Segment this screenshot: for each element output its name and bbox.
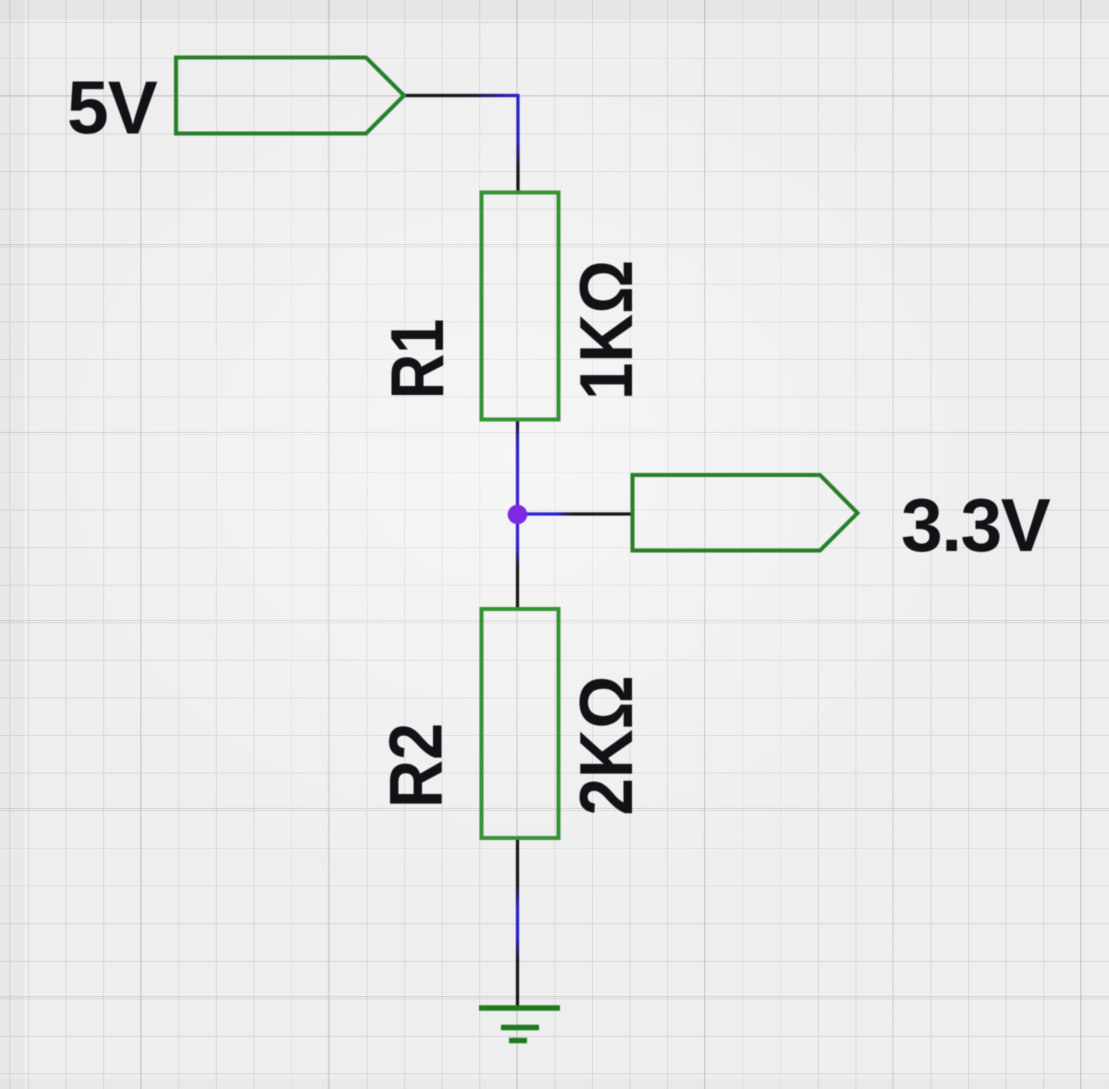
wire 5V terminal to top corner	[404, 94, 518, 97]
wire node to 3.3V terminal	[518, 512, 634, 515]
svg-text:5V: 5V	[67, 66, 158, 150]
output terminal 3.3V flag	[633, 475, 858, 551]
resistor R2 body	[482, 609, 559, 838]
power terminal 5V flag	[176, 58, 404, 134]
wire R2 bottom to ground	[516, 837, 519, 1008]
wire corner down to R1 top	[516, 94, 519, 193]
node junction dot	[508, 505, 528, 525]
svg-text:R1: R1	[375, 319, 459, 400]
ground symbol	[479, 1008, 560, 1041]
resistor R1 body	[482, 193, 559, 420]
svg-text:1KΩ: 1KΩ	[565, 260, 649, 400]
wire R1 bottom to R2 top through node	[516, 419, 519, 610]
svg-text:3.3V: 3.3V	[901, 483, 1051, 567]
svg-text:2KΩ: 2KΩ	[565, 675, 649, 815]
svg-text:R2: R2	[375, 723, 458, 808]
